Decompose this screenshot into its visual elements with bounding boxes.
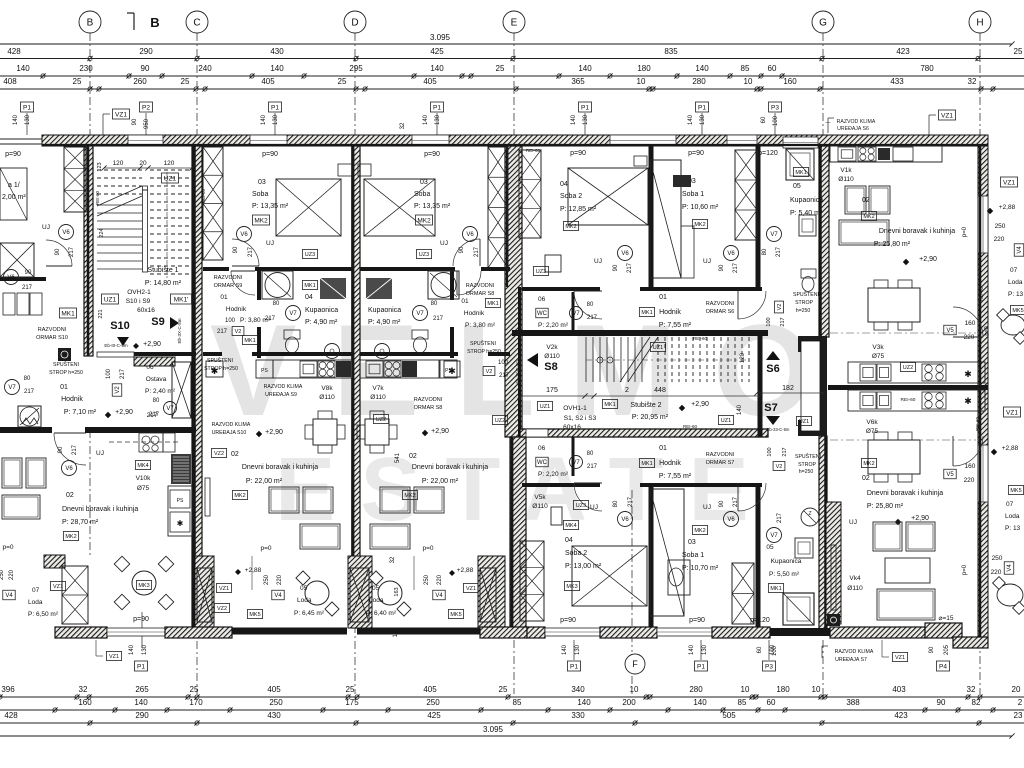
svg-text:V2: V2 <box>777 304 783 311</box>
svg-text:25: 25 <box>181 77 190 86</box>
party wall axis C <box>192 146 202 628</box>
svg-text:140: 140 <box>129 644 135 655</box>
svg-text:RAZVODNI: RAZVODNI <box>38 327 67 333</box>
svg-text:REI-60: REI-60 <box>95 191 100 206</box>
svg-text:90: 90 <box>937 698 946 707</box>
kitchen counter upper <box>848 362 985 383</box>
dimension chain row A (bottom) <box>0 696 1024 698</box>
svg-text:430: 430 <box>270 47 284 56</box>
svg-text:04: 04 <box>565 537 573 544</box>
svg-text:P: 5,40 m²: P: 5,40 m² <box>790 210 823 217</box>
svg-text:425: 425 <box>427 711 441 720</box>
door arc M2 soba <box>232 239 259 266</box>
svg-text:90: 90 <box>55 248 61 255</box>
label VZ2 + 02 M2 <box>211 449 226 458</box>
duct strip E lower <box>826 502 841 624</box>
svg-text:S1, S2 i S3: S1, S2 i S3 <box>564 415 597 422</box>
chairs right edge lower <box>997 584 1023 606</box>
svg-text:VZ2: VZ2 <box>214 451 224 457</box>
stairwell1 dim line 120 20 120 <box>104 167 192 169</box>
label V4 right wall <box>1014 244 1024 256</box>
label UZ3 E lower <box>573 501 588 510</box>
svg-text:03: 03 <box>258 179 266 186</box>
svg-text:MK5: MK5 <box>249 612 260 618</box>
svg-text:SPUŠTENI: SPUŠTENI <box>207 357 233 364</box>
svg-text:ORMAR S10: ORMAR S10 <box>36 335 68 341</box>
svg-text:UZ3: UZ3 <box>305 252 315 258</box>
svg-text:+2,90: +2,90 <box>691 401 709 408</box>
heater module L <box>18 406 41 427</box>
svg-text:REI-60: REI-60 <box>975 417 980 432</box>
vent circle V6 module L <box>59 225 74 240</box>
svg-text:Hodnik: Hodnik <box>659 460 681 467</box>
boiler M3 <box>375 344 390 359</box>
labels VZ1 VZ2 M2 loggia <box>216 584 231 593</box>
svg-text:Hodnik: Hodnik <box>659 309 681 316</box>
svg-text:217: 217 <box>776 246 782 257</box>
dimension chain row 3 (top) <box>0 88 1024 90</box>
svg-text:85: 85 <box>513 698 522 707</box>
grid axis bubble D <box>344 11 366 33</box>
stair break line <box>97 196 142 216</box>
svg-text:06: 06 <box>538 445 546 452</box>
svg-text:MK1: MK1 <box>61 310 75 317</box>
svg-text:✱: ✱ <box>964 369 972 379</box>
door arc M2 bath <box>231 271 255 295</box>
svg-text:295: 295 <box>349 64 363 73</box>
svg-text:Vk4: Vk4 <box>849 575 861 582</box>
svg-text:32: 32 <box>967 685 976 694</box>
svg-text:Dnevni boravak i kuhinja: Dnevni boravak i kuhinja <box>867 490 943 497</box>
svg-text:WC: WC <box>537 311 548 317</box>
svg-text:✱: ✱ <box>448 366 456 376</box>
svg-text:P: 6,40 m²: P: 6,40 m² <box>366 610 397 617</box>
svg-text:403: 403 <box>892 685 906 694</box>
svg-text:STROP: STROP <box>798 462 816 468</box>
svg-text:PS: PS <box>261 368 268 374</box>
svg-text:p=0: p=0 <box>962 564 968 575</box>
svg-text:388: 388 <box>846 698 860 707</box>
svg-text:130: 130 <box>273 114 279 125</box>
svg-text:MK1': MK1' <box>174 296 189 303</box>
door arc M3 soba <box>453 239 480 266</box>
dining table M3 <box>365 419 389 445</box>
svg-text:90: 90 <box>58 446 64 453</box>
svg-text:10: 10 <box>637 77 646 86</box>
svg-text:100: 100 <box>766 317 772 326</box>
svg-text:SPUŠTENI: SPUŠTENI <box>53 361 79 368</box>
svg-text:Loda: Loda <box>369 597 384 604</box>
svg-text:MK1: MK1 <box>770 586 781 592</box>
label MK5 M3 <box>448 610 463 619</box>
svg-text:p=120: p=120 <box>750 617 770 624</box>
label VZ1 right <box>938 110 955 120</box>
svg-text:P: 10,70 m²: P: 10,70 m² <box>682 565 719 572</box>
dining table right wing lower <box>868 440 920 474</box>
svg-text:ORMAR S8: ORMAR S8 <box>414 405 443 411</box>
svg-text:S6: S6 <box>766 363 779 375</box>
stair direction S8 <box>527 353 538 367</box>
exterior wall bottom band <box>55 627 107 638</box>
washing machine E <box>545 255 561 272</box>
svg-text:10: 10 <box>630 685 639 694</box>
svg-text:405: 405 <box>267 685 281 694</box>
svg-text:RAZVOD KLIMA: RAZVOD KLIMA <box>835 649 874 655</box>
svg-text:VZ1: VZ1 <box>466 586 476 592</box>
svg-text:UZ1: UZ1 <box>540 404 550 410</box>
svg-text:ORMAR S7: ORMAR S7 <box>706 460 735 466</box>
svg-text:Eb-I0-C-5m: Eb-I0-C-5m <box>104 343 128 348</box>
door arc M3 bath <box>457 271 481 295</box>
svg-text:UZ2: UZ2 <box>495 418 505 424</box>
svg-text:250: 250 <box>269 698 283 707</box>
svg-text:224: 224 <box>99 228 105 237</box>
svg-text:100: 100 <box>225 318 236 324</box>
bed E soba2 <box>568 168 648 225</box>
svg-text:04: 04 <box>305 294 313 301</box>
svg-text:90: 90 <box>25 270 32 276</box>
svg-text:Ø110: Ø110 <box>370 394 386 401</box>
svg-text:140: 140 <box>571 114 577 125</box>
grid axis bubble G <box>812 11 834 33</box>
svg-text:V4: V4 <box>5 593 13 599</box>
svg-text:Ø75: Ø75 <box>866 428 879 435</box>
svg-text:250: 250 <box>424 574 430 585</box>
grid axis bubble H <box>969 11 991 33</box>
svg-text:P1: P1 <box>697 663 705 670</box>
door arc E corridor left <box>574 291 602 319</box>
label UZ1 stair hall right <box>718 416 733 425</box>
svg-text:06: 06 <box>538 296 546 303</box>
svg-text:MK2: MK2 <box>234 493 245 499</box>
svg-text:UZ3: UZ3 <box>576 503 586 509</box>
window top E module soba2 <box>610 135 676 146</box>
svg-text:UREĐAJA S9: UREĐAJA S9 <box>265 392 297 398</box>
svg-text:H: H <box>976 18 983 29</box>
svg-text:Ø110: Ø110 <box>532 503 548 510</box>
fan circle E lower <box>801 508 819 526</box>
svg-text:V5k: V5k <box>534 494 546 501</box>
svg-text:217: 217 <box>433 316 444 322</box>
svg-text:V7: V7 <box>572 311 580 317</box>
svg-text:140: 140 <box>13 114 19 125</box>
svg-text:MK1: MK1 <box>641 310 652 316</box>
svg-text:ORMAR S6: ORMAR S6 <box>706 309 735 315</box>
svg-text:217: 217 <box>733 496 739 507</box>
svg-text:VZ1: VZ1 <box>115 111 127 118</box>
svg-text:100: 100 <box>773 115 779 126</box>
label UZ2 M3 wall <box>492 416 507 425</box>
svg-text:60x16: 60x16 <box>563 424 581 431</box>
bed E soba1 <box>650 160 681 278</box>
label VZ2 M3 loggia <box>479 610 494 619</box>
wardrobe ladder E soba1 <box>735 150 757 240</box>
label P2 top <box>139 102 152 112</box>
svg-text:REI-60: REI-60 <box>693 336 708 341</box>
svg-text:Soba: Soba <box>414 191 430 198</box>
svg-text:250: 250 <box>995 223 1006 230</box>
svg-text:+2,90: +2,90 <box>143 341 161 348</box>
svg-text:03: 03 <box>420 179 428 186</box>
svg-text:MK2: MK2 <box>694 222 705 228</box>
window top module L <box>128 135 163 146</box>
svg-text:220: 220 <box>964 477 975 484</box>
grid axis bubble E <box>503 11 525 33</box>
label VZ1 M3 loggia <box>463 584 478 593</box>
svg-text:130: 130 <box>435 114 441 125</box>
label V2 E bottom <box>773 462 785 471</box>
wall M2 bath top <box>203 267 229 271</box>
svg-text:Loda: Loda <box>1005 513 1020 520</box>
svg-text:p=90: p=90 <box>688 150 704 157</box>
svg-text:P: 5,50 m²: P: 5,50 m² <box>769 571 800 578</box>
svg-text:Ø110: Ø110 <box>838 176 854 183</box>
svg-text:Soba 1: Soba 1 <box>682 191 704 198</box>
svg-text:217: 217 <box>474 246 480 257</box>
svg-text:60: 60 <box>761 116 767 123</box>
svg-text:UREĐAJA S7: UREĐAJA S7 <box>835 657 867 663</box>
radiator E lower <box>831 545 836 610</box>
svg-text:290: 290 <box>135 711 149 720</box>
svg-text:04: 04 <box>560 181 568 188</box>
svg-text:STROP: STROP <box>795 300 813 306</box>
svg-text:405: 405 <box>261 77 275 86</box>
svg-text:160: 160 <box>965 320 976 327</box>
svg-text:25: 25 <box>1014 47 1023 56</box>
label V2 E top <box>775 301 784 313</box>
svg-text:V7: V7 <box>8 385 16 391</box>
svg-text:396: 396 <box>1 685 15 694</box>
asterisk light M3 <box>444 361 460 377</box>
svg-text:REI-60: REI-60 <box>201 189 206 204</box>
svg-text:Ø75: Ø75 <box>872 353 885 360</box>
svg-text:Dnevni boravak i kuhinja: Dnevni boravak i kuhinja <box>62 506 138 513</box>
svg-text:MK1: MK1 <box>304 283 315 289</box>
svg-text:180: 180 <box>776 685 790 694</box>
kitchen counter top right wing <box>830 146 942 162</box>
svg-text:Dnevni boravak i kuhinja: Dnevni boravak i kuhinja <box>242 464 318 471</box>
wardrobe X left of stairwell <box>64 147 86 212</box>
svg-text:90: 90 <box>459 246 465 253</box>
grid axis line F <box>631 490 633 652</box>
label MK2 E soba2 <box>563 222 578 231</box>
svg-text:V2: V2 <box>235 329 242 335</box>
svg-text:423: 423 <box>896 47 910 56</box>
svg-text:S7: S7 <box>764 402 777 414</box>
svg-text:82: 82 <box>972 698 981 707</box>
svg-text:P: 13: P: 13 <box>1008 291 1024 298</box>
exterior wall right band <box>978 146 988 640</box>
cabinet E lower <box>551 507 562 525</box>
party wall axis E <box>505 146 522 437</box>
dimension chain row B (bottom) <box>0 709 1024 711</box>
svg-text:90: 90 <box>233 246 239 253</box>
electric meter box module L <box>58 348 71 361</box>
left edge window line <box>0 138 42 140</box>
svg-text:V7: V7 <box>572 460 580 466</box>
svg-text:P1: P1 <box>698 104 706 111</box>
svg-text:433: 433 <box>890 77 904 86</box>
svg-text:V1k: V1k <box>840 167 852 174</box>
svg-text:p=90: p=90 <box>262 151 278 158</box>
mirror cabinet M3 bath <box>366 278 392 299</box>
svg-text:P: 6,50 m²: P: 6,50 m² <box>28 611 59 618</box>
cabinet E soba1 <box>673 175 691 187</box>
svg-text:UZ2: UZ2 <box>376 417 386 423</box>
svg-text:Kupaonica: Kupaonica <box>790 197 823 204</box>
svg-text:408: 408 <box>3 77 17 86</box>
svg-text:Soba 1: Soba 1 <box>682 552 704 559</box>
terrace round table MK3 <box>132 571 156 595</box>
door sill stairwell <box>97 352 134 357</box>
svg-text:P3: P3 <box>765 663 773 670</box>
svg-text:Z: Z <box>808 511 811 517</box>
svg-text:Kupaonica: Kupaonica <box>368 307 401 314</box>
wall E module bedroom divider upper <box>649 146 654 287</box>
svg-text:130: 130 <box>25 114 31 125</box>
svg-text:VZ2: VZ2 <box>217 606 227 612</box>
svg-text:UJ: UJ <box>849 519 857 526</box>
svg-text:P1: P1 <box>137 663 145 670</box>
svg-text:32: 32 <box>79 685 88 694</box>
svg-text:p=90: p=90 <box>560 617 576 624</box>
label VZ1 bottom left <box>106 652 121 661</box>
svg-text:217: 217 <box>120 368 126 379</box>
svg-text:MK3: MK3 <box>138 583 149 589</box>
grid axis line C <box>196 33 198 694</box>
label UZ1 S7 <box>796 417 811 426</box>
svg-text:S9: S9 <box>151 316 164 328</box>
svg-text:V7: V7 <box>289 311 297 317</box>
svg-text:P: 13,00 m²: P: 13,00 m² <box>565 563 602 570</box>
svg-text:C: C <box>193 18 200 29</box>
svg-text:+2,88: +2,88 <box>457 567 474 574</box>
shower M2 <box>262 271 293 299</box>
svg-text:WC: WC <box>537 460 548 466</box>
window top module M2 <box>250 135 287 146</box>
svg-text:25: 25 <box>190 685 199 694</box>
svg-text:VZ1: VZ1 <box>1006 409 1018 416</box>
overall dimension line 3.095 (bottom) <box>0 735 1012 737</box>
cabinet row module L <box>3 293 15 315</box>
label MK3 E lower <box>564 582 579 591</box>
svg-text:P: 22,00 m²: P: 22,00 m² <box>246 478 283 485</box>
loggia wall module L <box>44 555 65 568</box>
svg-text:ORMAR S8: ORMAR S8 <box>466 291 495 297</box>
grid axis bubble B <box>79 11 101 33</box>
svg-text:D: D <box>351 18 358 29</box>
overall dimension line 3.095 (top) <box>0 43 1012 45</box>
svg-text:STROP h=250: STROP h=250 <box>204 366 238 372</box>
svg-text:220: 220 <box>9 569 15 580</box>
toilet E kupaonica <box>801 269 816 278</box>
svg-text:V7k: V7k <box>372 385 384 392</box>
dining table M2 <box>313 419 337 445</box>
label VZ1 right wall upper <box>1000 177 1017 187</box>
dimension chain row 1 (top) <box>0 58 1024 60</box>
wall corner step bottom right <box>925 623 962 638</box>
svg-text:UJ: UJ <box>96 450 104 457</box>
stair2 solid steps <box>585 337 587 382</box>
svg-text:P: 20,95 m²: P: 20,95 m² <box>632 414 669 421</box>
svg-text:P: 6,45 m²: P: 6,45 m² <box>294 610 325 617</box>
stair hall top wall <box>512 330 768 336</box>
svg-text:RAZVODNI: RAZVODNI <box>214 275 243 281</box>
svg-text:a 1/: a 1/ <box>8 182 20 189</box>
bed module L <box>0 168 27 220</box>
svg-text:425: 425 <box>430 47 444 56</box>
svg-text:F: F <box>632 659 638 669</box>
label UZ2 M2 <box>373 415 388 424</box>
svg-text:85: 85 <box>738 698 747 707</box>
svg-text:428: 428 <box>4 711 18 720</box>
svg-text:Hodnik: Hodnik <box>61 396 83 403</box>
nightstand M3 <box>358 164 371 176</box>
svg-text:60: 60 <box>757 646 763 653</box>
svg-text:V6: V6 <box>621 251 629 257</box>
svg-text:V2: V2 <box>776 464 783 470</box>
wall E module kupaonica left lower <box>756 485 761 628</box>
sofa M3 <box>370 524 410 549</box>
toilet M2 <box>284 330 300 339</box>
kitchen M3 counter <box>360 360 439 378</box>
svg-text:290: 290 <box>139 47 153 56</box>
svg-text:RAZVOD KLIMA: RAZVOD KLIMA <box>264 384 303 390</box>
svg-text:200: 200 <box>622 698 636 707</box>
svg-text:20: 20 <box>1012 685 1021 694</box>
grid axis line D <box>354 33 356 694</box>
svg-text:130: 130 <box>702 644 708 655</box>
dimension chain row C (bottom) <box>0 722 1024 724</box>
svg-text:160: 160 <box>78 698 92 707</box>
sofa module L <box>2 458 22 488</box>
vent V7 M3 <box>413 306 428 321</box>
svg-text:217: 217 <box>782 447 788 456</box>
svg-text:Stubište 1: Stubište 1 <box>147 267 178 274</box>
svg-text:120: 120 <box>740 352 746 363</box>
wall M3 kitchen <box>360 352 458 356</box>
label MK2 M2 living <box>232 491 247 500</box>
svg-text:+2,90: +2,90 <box>265 429 283 436</box>
wall WC E top <box>572 292 575 331</box>
svg-text:P: 7,55 m²: P: 7,55 m² <box>659 322 692 329</box>
svg-text:UJ: UJ <box>590 504 598 511</box>
label V4 M2 loggia <box>272 590 284 600</box>
label MK1 E kupaonica <box>793 168 808 177</box>
stair2 break <box>620 337 650 382</box>
svg-text:STROP h=250: STROP h=250 <box>467 349 501 355</box>
svg-text:p=90: p=90 <box>570 150 586 157</box>
svg-text:05: 05 <box>766 544 774 551</box>
door right wing top <box>953 307 983 337</box>
svg-text:✱: ✱ <box>177 519 184 528</box>
svg-text:25: 25 <box>73 77 82 86</box>
wardrobe X right of stairwell <box>203 147 223 260</box>
svg-text:VZ1: VZ1 <box>109 654 119 660</box>
svg-text:P: 7,10 m²: P: 7,10 m² <box>64 409 97 416</box>
svg-text:Ø110: Ø110 <box>319 394 335 401</box>
label UZ3 M3 <box>416 250 431 259</box>
svg-text:120: 120 <box>113 160 124 167</box>
svg-text:p=90: p=90 <box>5 151 21 158</box>
svg-text:85: 85 <box>741 64 750 73</box>
shower M3 <box>428 271 459 299</box>
svg-text:Ostava: Ostava <box>146 376 167 383</box>
svg-text:MK4: MK4 <box>565 523 576 529</box>
svg-text:80: 80 <box>613 500 619 507</box>
svg-text:UZ2: UZ2 <box>903 365 913 371</box>
svg-text:S10: S10 <box>110 320 130 332</box>
